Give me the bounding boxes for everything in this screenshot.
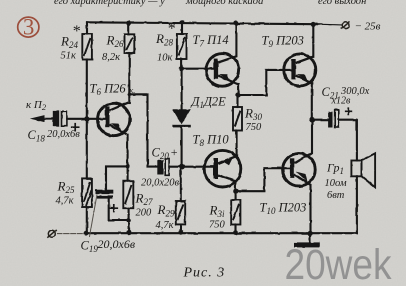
paper grain [0, 0, 1, 1]
wire: bottom bus [86, 232, 357, 234]
resistor R25 [82, 178, 92, 207]
svg-text:Рис. 3: Рис. 3 [183, 266, 226, 281]
wire: T7 collector to bus [235, 23, 237, 57]
svg-text:10к: 10к [157, 53, 173, 64]
wire: input line [38, 118, 53, 120]
resistor R26 [125, 34, 135, 53]
capacitor C20 [157, 159, 169, 175]
wire: T6 base [87, 118, 106, 120]
wire: R24 bottom to base junction [86, 60, 88, 119]
node: R27/C19 join [126, 218, 131, 223]
wire: T9 emitter down to output node [311, 83, 313, 120]
wire: diode bottom lead [181, 127, 183, 167]
node: T10/ground/bus [308, 231, 313, 236]
wire: top supply bus [87, 22, 317, 24]
wire: R28 bottom to T7 base junction [181, 59, 183, 69]
transistor T7 (П14) [206, 54, 239, 87]
wire: R29 top lead [180, 167, 182, 232]
svg-text:его характеристику — у: его характеристику — у [54, 0, 165, 7]
transistor T9 (П203) [284, 54, 316, 86]
wire: emitter rail to T9 base corner [238, 70, 292, 95]
node: R29/bus [178, 230, 183, 235]
transistor T6 (П26) [98, 103, 130, 136]
svg-text:20wek: 20wek [285, 242, 393, 286]
svg-text:*: * [72, 23, 80, 40]
terminal top right (-25в) [341, 21, 350, 29]
svg-text:Т8 П10: Т8 П10 [193, 133, 230, 149]
svg-text:750: 750 [246, 122, 263, 133]
svg-text:− 25в: − 25в [355, 21, 381, 33]
svg-text:Т7 П14: Т7 П14 [193, 33, 229, 49]
node: T8 base/C20/diode [179, 164, 185, 170]
wire: R30 bottom to T8 top [236, 131, 238, 157]
svg-text:20,0х20в: 20,0х20в [141, 178, 180, 189]
node: T9 collector/bus [311, 22, 316, 27]
wire: output node to C21 [312, 119, 329, 121]
wire: C20 right plate to T8 base [169, 166, 213, 168]
wire: C18 to base junction [67, 118, 87, 120]
svg-text:51к: 51к [61, 51, 77, 62]
svg-text:4,7к: 4,7к [156, 220, 174, 231]
transistor T8 (П10) [204, 150, 241, 187]
svg-text:к.: к. [130, 86, 136, 95]
node: T8/R31 rail [233, 188, 239, 194]
transistor T10 (П203) [283, 153, 316, 186]
node: R28/bus [180, 20, 185, 25]
wire: collector branch to C20 [129, 94, 157, 166]
wire: speaker bottom to bus corner [356, 176, 358, 233]
wire: ground stem [309, 233, 311, 242]
node: R31/bus [233, 230, 238, 235]
wire: C21 to speaker top corner [339, 120, 357, 161]
wire: C19 top branch [106, 166, 128, 189]
wire: R27 bottom to bus [128, 208, 130, 232]
diode D1 D2E [172, 109, 190, 127]
ground symbol [294, 242, 319, 247]
svg-text:х12в: х12в [331, 96, 351, 107]
wire: R30 top lead [236, 95, 238, 107]
resistor R27 [123, 181, 133, 208]
wire: T10 emitter down to bus [309, 185, 311, 233]
resistor R29 [176, 201, 185, 224]
cut-off text line at top [54, 0, 366, 7]
wire: rail to T10 base corner [236, 168, 290, 191]
wire: R24 top drop [86, 22, 88, 34]
loudspeaker Гр1 [351, 153, 375, 187]
svg-text:20,0х6в: 20,0х6в [47, 129, 80, 140]
capacitor C19 (horizontal plates) [90, 190, 119, 237]
input arrowhead (к П2) [30, 115, 45, 122]
wire: diode top lead [181, 69, 183, 110]
node: T7 collector/bus [234, 20, 239, 25]
svg-text:*: * [167, 21, 175, 38]
wire: R31 bottom lead [234, 225, 236, 233]
wire: T7 base [182, 68, 214, 70]
wire: T7 emitter drop [238, 84, 240, 95]
capacitor C21 [329, 107, 353, 127]
svg-text:6вт: 6вт [327, 190, 345, 201]
svg-text:+: + [170, 145, 178, 159]
wire: R26 bottom / T6 collector vertical [128, 54, 130, 104]
svg-text:Д1Д2Е: Д1Д2Е [191, 95, 227, 111]
svg-text:8,2к: 8,2к [102, 52, 120, 63]
svg-text:его выходн: его выходн [318, 0, 366, 7]
svg-text:4,7к: 4,7к [56, 196, 74, 207]
resistor R30 [233, 107, 242, 131]
wire: T8 bottom drop [234, 181, 236, 191]
svg-text:10ом: 10ом [325, 178, 347, 189]
wire: R25 verticals [86, 119, 88, 233]
red circled 3 (page marker) [18, 14, 39, 39]
wire: T9 collector to bus [312, 24, 314, 57]
capacitor C18 [53, 110, 80, 131]
terminal bottom left [47, 230, 56, 238]
node: output/T9/T10/C21 [309, 117, 315, 123]
resistor R24 [82, 34, 92, 60]
node: T6 base/C18/R24/R25 [84, 116, 89, 121]
wire: R28 top drop [181, 22, 183, 34]
node: R27 drop/bus [126, 230, 131, 235]
node: collector corner [128, 93, 132, 97]
resistor R28 [177, 34, 187, 59]
svg-text:3: 3 [23, 14, 35, 39]
svg-text:Т9 П203: Т9 П203 [262, 34, 304, 50]
node: C19/emitter branch [126, 164, 130, 168]
svg-text:750: 750 [209, 220, 226, 231]
svg-text:200: 200 [136, 208, 153, 219]
svg-text:Т6 П26: Т6 П26 [90, 82, 127, 98]
svg-text:мощного каскада: мощного каскада [185, 0, 263, 7]
node: emitter rail/R30 [235, 93, 240, 98]
node: R26/bus [126, 21, 131, 26]
svg-text:20,0х6в: 20,0х6в [98, 237, 136, 251]
wire: thin lead to left terminal [58, 233, 87, 235]
node: R28/T7 base [179, 66, 184, 71]
wire: T6 emitter vertical to R27 [127, 134, 129, 181]
resistor R31 [231, 200, 240, 225]
wire: R31 top lead [235, 191, 237, 200]
node: R25/bus [84, 231, 89, 236]
wire: T10 collector up to output node [311, 120, 313, 153]
wire: R26 top drop [128, 23, 130, 34]
wire: C19 bottom drop [109, 199, 129, 220]
leader line to C19 label [90, 195, 98, 237]
wire: top bus thin segment to terminal [317, 23, 342, 26]
